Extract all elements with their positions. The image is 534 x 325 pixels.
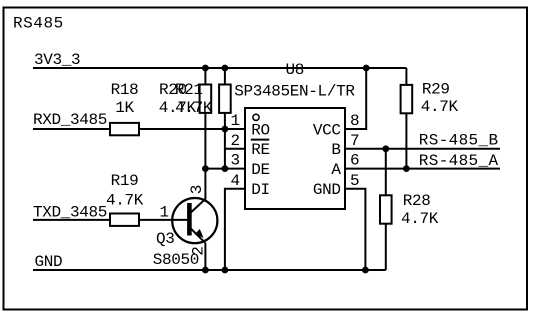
junction GND/emitter [202, 267, 209, 274]
svg-text:RS-485_B: RS-485_B [419, 132, 499, 150]
svg-text:TXD_3485: TXD_3485 [33, 204, 107, 222]
svg-text:A: A [331, 161, 341, 179]
svg-text:4.7K: 4.7K [401, 210, 439, 228]
svg-text:1: 1 [231, 112, 240, 130]
junction DE node right [222, 165, 229, 172]
svg-text:RO: RO [251, 121, 270, 139]
svg-text:R28: R28 [403, 192, 431, 210]
wire R18 to pin 1 RO [139, 128, 245, 130]
svg-text:R21: R21 [175, 81, 203, 99]
svg-text:3V3_3: 3V3_3 [34, 51, 80, 69]
svg-text:GND: GND [35, 253, 63, 271]
resistor R29 [401, 81, 459, 116]
resistor R19 [106, 172, 144, 226]
wire TXD_3485 to R19 [33, 219, 110, 221]
svg-text:7: 7 [350, 132, 359, 150]
wire A pin 6 to RS-485_A [345, 168, 500, 170]
resistor R20 [159, 81, 211, 117]
svg-text:RXD_3485: RXD_3485 [33, 111, 107, 129]
junction GND/DI [222, 267, 229, 274]
pin name RE with overbar [251, 140, 270, 160]
svg-text:RS485: RS485 [13, 14, 64, 32]
svg-text:3: 3 [188, 185, 206, 194]
wire 3V3_3 rail [33, 67, 406, 69]
resistor R28 [380, 192, 439, 228]
svg-text:5: 5 [350, 172, 359, 190]
svg-text:2: 2 [231, 132, 240, 150]
junction 3V3/VCC [363, 65, 370, 72]
junction GND/pin5 [362, 267, 369, 274]
svg-text:Q3: Q3 [156, 230, 175, 248]
svg-text:4.7K: 4.7K [106, 192, 144, 210]
svg-text:1K: 1K [115, 99, 134, 117]
svg-text:GND: GND [313, 181, 341, 199]
pin name RO [251, 114, 270, 139]
svg-text:R18: R18 [111, 81, 139, 99]
svg-text:B: B [331, 141, 340, 159]
junction B/R28 [382, 145, 389, 152]
wire Q3 emitter to GND [204, 243, 206, 270]
wire R20 pullup vertical (3V3 to DE node to Q3 collector) [204, 68, 206, 200]
wire RXD_3485 to R18 [33, 128, 110, 130]
wire DE pin 3 stub [205, 168, 245, 170]
junction 3V3/R21 [222, 65, 229, 72]
wire R21 pullup vertical (3V3 to RO node to RE node) [224, 68, 226, 169]
wire R28 pulldown vertical (RS-485_B to GND) [385, 149, 387, 270]
svg-text:6: 6 [350, 152, 359, 170]
wire R19 to Q3 base [139, 219, 187, 221]
svg-text:4: 4 [231, 172, 240, 190]
resistor R21 [175, 81, 231, 117]
svg-text:DI: DI [251, 181, 270, 199]
svg-text:DE: DE [251, 161, 270, 179]
svg-text:4.7K: 4.7K [421, 98, 459, 116]
wire VCC pin 8 to 3V3 rail [345, 68, 366, 129]
wire GND rail [33, 269, 386, 271]
svg-text:RE: RE [251, 141, 270, 159]
svg-text:3: 3 [231, 152, 240, 170]
junction 3V3/R20 [202, 65, 209, 72]
wire GND pin 5 drop to GND rail [345, 189, 365, 270]
wire B pin 7 to RS-485_B [345, 148, 500, 150]
svg-text:VCC: VCC [313, 121, 341, 139]
svg-text:RS-485_A: RS-485_A [419, 152, 499, 170]
IC U8 SP3485EN-L/TR body [245, 108, 345, 209]
svg-text:R19: R19 [111, 172, 139, 190]
svg-text:1: 1 [160, 204, 169, 222]
wire DI pin 4 stub and drop to GND [225, 189, 245, 270]
resistor R18 [110, 81, 139, 135]
junction A/R29 [403, 165, 410, 172]
wire RE pin 2 stub [225, 148, 245, 150]
junction DE node left [202, 165, 209, 172]
svg-text:U8: U8 [286, 61, 305, 79]
svg-text:4.7K: 4.7K [175, 99, 213, 117]
svg-text:R29: R29 [422, 81, 450, 99]
svg-text:2: 2 [190, 247, 208, 256]
transistor Q3 [153, 198, 218, 269]
svg-text:8: 8 [350, 112, 359, 130]
wire R29 pullup vertical (3V3 to RS-485_A) [405, 68, 407, 169]
svg-text:SP3485EN-L/TR: SP3485EN-L/TR [234, 82, 355, 100]
junction RO node [222, 126, 229, 133]
